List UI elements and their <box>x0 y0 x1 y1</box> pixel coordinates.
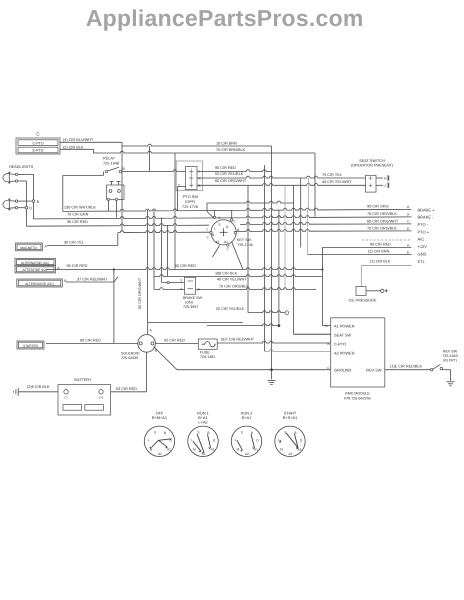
headlight 1 <box>8 173 10 182</box>
trunk x300.7 <box>300 178 302 248</box>
trunk x161.5 <box>161 218 163 283</box>
svg-text:40 CIR YEL/WHT: 40 CIR YEL/WHT <box>322 180 352 184</box>
svg-text:GROUND: GROUND <box>334 368 351 373</box>
svg-text:C-PTO: C-PTO <box>32 141 43 145</box>
svg-text:(IN FRT): (IN FRT) <box>443 359 457 363</box>
svg-text:HEADLIGHTS: HEADLIGHTS <box>9 165 34 169</box>
svg-text:REV SW: REV SW <box>366 368 382 373</box>
svg-text:(6)7 CIR RED/WHT: (6)7 CIR RED/WHT <box>221 338 255 342</box>
svg-text:60 CIR ORG/WHT: 60 CIR ORG/WHT <box>367 219 399 223</box>
svg-text:725-1716: 725-1716 <box>182 205 198 209</box>
svg-text:PTO SW.: PTO SW. <box>183 195 199 199</box>
trunk x154 <box>153 210 155 290</box>
svg-text:(-): (-) <box>65 396 68 400</box>
trunk x175 <box>174 153 176 270</box>
headlight 2 <box>8 200 10 209</box>
svg-text:S: S <box>218 223 220 227</box>
svg-text:37 CIR RED/WHT: 37 CIR RED/WHT <box>77 277 108 281</box>
magneto <box>16 243 43 251</box>
svg-text:FUSE: FUSE <box>200 351 210 355</box>
ground <box>268 380 276 382</box>
svg-text:B: B <box>164 431 166 435</box>
svg-text:725-3557: 725-3557 <box>183 305 198 309</box>
svg-text:E-PTO: E-PTO <box>33 149 44 153</box>
svg-text:70 CIR BRN/BLK: 70 CIR BRN/BLK <box>216 148 246 152</box>
starter <box>17 341 44 349</box>
svg-text:A/C: A/C <box>418 237 425 242</box>
svg-text:SOLENOID: SOLENOID <box>121 352 140 356</box>
svg-text:30 CIR YEL: 30 CIR YEL <box>64 241 84 245</box>
svg-text:ALTERNATOR (DC): ALTERNATOR (DC) <box>25 282 54 286</box>
trunk x248 <box>247 185 249 312</box>
svg-text:70 CIR ORG/BLK: 70 CIR ORG/BLK <box>367 226 397 230</box>
svg-text:REV SW: REV SW <box>443 350 458 354</box>
key switch rim terminals <box>213 216 215 218</box>
svg-text:RELAY: RELAY <box>103 157 116 161</box>
svg-text:A2: A2 <box>245 452 249 456</box>
svg-text:60 CIR ORG/WHT: 60 CIR ORG/WHT <box>215 179 247 183</box>
svg-text:A1: A1 <box>298 448 302 452</box>
svg-text:PTO -: PTO - <box>418 222 429 227</box>
svg-text:T: T <box>206 228 208 232</box>
svg-text:(2)6 CIR BLK: (2)6 CIR BLK <box>27 385 50 389</box>
svg-text:(OPERATOR PRESENT): (OPERATOR PRESENT) <box>351 164 394 168</box>
trunk x113.9 starter feed <box>113 270 115 344</box>
svg-text:B+A1: B+A1 <box>242 415 252 420</box>
svg-text:M: M <box>237 448 240 452</box>
svg-text:70 CIR GRN: 70 CIR GRN <box>67 212 89 216</box>
svg-text:90 CIR ORG: 90 CIR ORG <box>367 204 389 208</box>
svg-text:B+M+A1: B+M+A1 <box>152 415 167 420</box>
svg-text:725-1643: 725-1643 <box>442 354 457 358</box>
svg-text:SEAT SWITCH: SEAT SWITCH <box>359 159 385 163</box>
svg-text:M: M <box>280 448 283 452</box>
svg-text:(+): (+) <box>99 396 103 400</box>
svg-text:130 CIR WHT/BLK: 130 CIR WHT/BLK <box>64 205 96 209</box>
svg-text:(1)E CIR RED/BLK: (1)E CIR RED/BLK <box>390 364 423 368</box>
trunk x271 ground trunk <box>271 146 273 370</box>
oil pressure switch <box>356 287 366 296</box>
svg-text:60 CIR RED: 60 CIR RED <box>80 339 101 343</box>
PTO switch outer box <box>176 161 202 191</box>
svg-text:90 CIR RED: 90 CIR RED <box>370 242 391 246</box>
trunk x316 <box>314 153 316 217</box>
rev switch 725-1643 <box>431 369 433 371</box>
svg-text:AppliancePartsPros.com: AppliancePartsPros.com <box>86 5 364 31</box>
wire pto C pin <box>178 186 186 188</box>
svg-text:BATTERY: BATTERY <box>74 378 92 382</box>
svg-text:92 CIR RED: 92 CIR RED <box>164 338 185 342</box>
svg-text:A2: A2 <box>289 452 293 456</box>
svg-text:BRAKE -: BRAKE - <box>418 215 435 220</box>
svg-text:90 CIR RED: 90 CIR RED <box>67 264 88 268</box>
svg-text:P/N 725-04297B: P/N 725-04297B <box>344 397 371 401</box>
svg-text:BRAKE +: BRAKE + <box>418 207 436 212</box>
key switch A1 diagonal to 60 CIR RED <box>232 242 244 270</box>
fuse 729-1381 <box>198 339 217 349</box>
svg-text:J: J <box>384 184 386 188</box>
svg-text:D: D <box>29 207 32 211</box>
svg-text:L: L <box>214 227 216 231</box>
svg-text:ETL: ETL <box>418 259 426 264</box>
svg-text:C-PTO: C-PTO <box>334 342 346 347</box>
RMC module box <box>331 318 385 387</box>
svg-text:70 CIR ORG/BLK: 70 CIR ORG/BLK <box>367 212 397 216</box>
svg-text:60 CIR ORG/WHT: 60 CIR ORG/WHT <box>138 277 142 309</box>
svg-text:L+A2: L+A2 <box>198 420 207 425</box>
trunk x167.5 <box>167 225 169 277</box>
svg-text:90 CIR RED: 90 CIR RED <box>215 166 236 170</box>
svg-text:90 CIR RED: 90 CIR RED <box>67 220 88 224</box>
svg-text:KEY SW.: KEY SW. <box>237 238 252 242</box>
svg-text:729-1381: 729-1381 <box>200 355 215 359</box>
node D <box>25 206 28 209</box>
svg-text:64 CIR RED: 64 CIR RED <box>116 387 137 391</box>
svg-text:(1) CIR BLK: (1) CIR BLK <box>370 259 391 263</box>
svg-text:A1: A1 <box>211 448 215 452</box>
svg-text:F: F <box>198 170 200 174</box>
alternator (DC) <box>17 279 63 287</box>
svg-text:PTO +: PTO + <box>418 229 430 234</box>
wire solenoid A row <box>148 322 243 324</box>
ground bus row <box>177 369 331 371</box>
svg-text:A1: A1 <box>224 240 228 244</box>
trunk x293.5 seat feed <box>293 185 295 334</box>
wire to A1 junction <box>207 324 277 326</box>
svg-text:(2) CIR BRN: (2) CIR BRN <box>368 249 390 253</box>
trunk x285 <box>284 185 286 290</box>
svg-text:B+S+A1: B+S+A1 <box>283 415 298 420</box>
svg-text:(ON): (ON) <box>185 301 193 305</box>
svg-text:S: S <box>197 431 199 435</box>
PTO switch 725-1716 <box>186 167 198 190</box>
wire A1 power <box>322 325 330 327</box>
svg-text:725-04439: 725-04439 <box>121 356 138 360</box>
svg-text:725-1740: 725-1740 <box>238 243 253 247</box>
trunk x122 blu/wht <box>121 142 123 232</box>
svg-text:B: B <box>237 228 239 232</box>
svg-text:60 CIR RED: 60 CIR RED <box>175 264 196 268</box>
svg-text:S: S <box>284 431 286 435</box>
trunk x264.4 A2 feed <box>263 165 265 351</box>
svg-text:725-1648: 725-1648 <box>103 162 119 166</box>
svg-text:S: S <box>154 431 156 435</box>
solenoid 725-04439 <box>138 335 156 353</box>
svg-text:STARTER: STARTER <box>23 344 39 348</box>
svg-text:(OFF): (OFF) <box>185 200 196 204</box>
svg-text:SEAT SW: SEAT SW <box>334 333 351 338</box>
wire A/C row <box>362 239 412 241</box>
svg-text:70 CIR YEL: 70 CIR YEL <box>322 173 342 177</box>
wire A2 power <box>264 350 330 352</box>
seat switch pins H J <box>376 177 383 179</box>
svg-text:3: 3 <box>180 279 182 283</box>
svg-text:+12V: +12V <box>418 244 428 249</box>
svg-text:L: L <box>235 438 237 442</box>
trunk x147.5 <box>147 210 149 323</box>
svg-text:S: S <box>241 431 243 435</box>
wire solenoid B to ground bus <box>154 347 178 370</box>
svg-text:A1: A1 <box>167 448 171 452</box>
svg-text:(2) CIR BLK: (2) CIR BLK <box>63 145 84 149</box>
key switch top feeds <box>207 203 214 218</box>
svg-text:A1 POWER: A1 POWER <box>334 324 355 329</box>
ground rev <box>447 381 455 383</box>
svg-text:M: M <box>212 233 215 237</box>
svg-text:40 CIR YEL/WHT: 40 CIR YEL/WHT <box>217 277 247 281</box>
svg-text:A2: A2 <box>158 452 162 456</box>
svg-text:OIL PRESSURE: OIL PRESSURE <box>349 299 377 303</box>
alternator (AC) <box>15 259 56 266</box>
svg-text:A1: A1 <box>254 448 258 452</box>
svg-text:3: 3 <box>180 287 182 291</box>
svg-text:GND: GND <box>418 251 427 256</box>
trunk x278.9 <box>278 210 280 326</box>
afterfire sol <box>15 266 56 273</box>
svg-text:A2 POWER: A2 POWER <box>334 350 355 355</box>
svg-text:A2: A2 <box>216 240 220 244</box>
trunk x307.5 <box>307 210 309 255</box>
svg-text:B: B <box>325 324 327 328</box>
wire relay to headlight loop <box>63 175 104 177</box>
svg-text:M: M <box>193 448 196 452</box>
svg-text:(4) CIR BLU/WHT: (4) CIR BLU/WHT <box>63 138 94 142</box>
key switch 725-1740 <box>211 220 236 245</box>
trunk x322.4 A1 feed <box>321 248 323 326</box>
wire starter to solenoid <box>46 342 138 344</box>
svg-text:10 CIR BRN: 10 CIR BRN <box>216 141 237 145</box>
seat switch <box>366 175 377 192</box>
headlight wiring <box>18 173 34 175</box>
brake switch 725-3557 <box>185 277 196 294</box>
svg-text:L: L <box>148 438 150 442</box>
svg-text:RMC MODULE: RMC MODULE <box>345 392 370 396</box>
svg-text:MAGNETO: MAGNETO <box>20 246 37 250</box>
ground battery <box>17 388 19 396</box>
svg-text:70 CIR ORG/BLK: 70 CIR ORG/BLK <box>219 284 249 288</box>
svg-text:55 CIR YEL/BLK: 55 CIR YEL/BLK <box>216 307 245 311</box>
svg-text:B: B <box>327 342 329 346</box>
node B <box>32 200 35 203</box>
wire seat sw to module <box>294 333 331 335</box>
svg-text:55 CIR YEL/BLK: 55 CIR YEL/BLK <box>215 172 244 176</box>
svg-text:188 CIR BLK: 188 CIR BLK <box>215 271 238 275</box>
trunk x308.4 upper <box>307 178 309 210</box>
svg-text:ALTERNATOR (AC): ALTERNATOR (AC) <box>21 261 49 265</box>
svg-text:AFTERFIRE SOL: AFTERFIRE SOL <box>23 268 48 272</box>
svg-text:BRAKE SW.: BRAKE SW. <box>183 296 203 300</box>
